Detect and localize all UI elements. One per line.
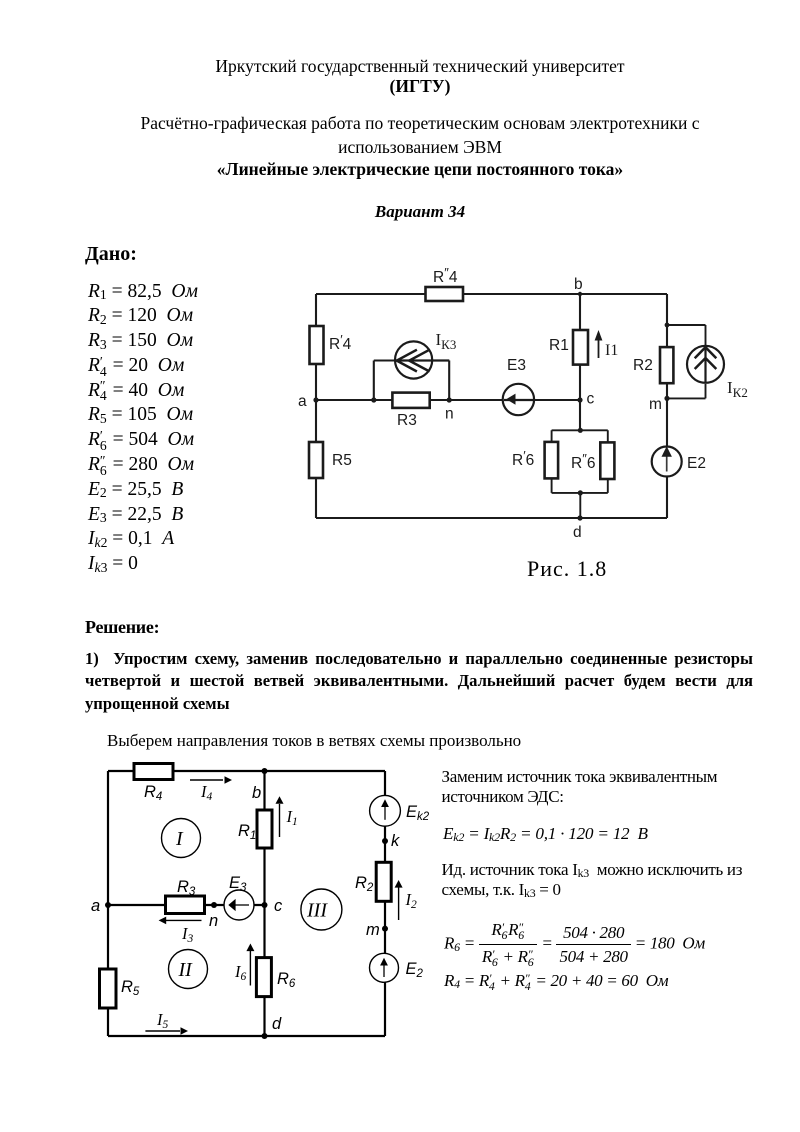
svg-text:R2: R2 xyxy=(633,357,653,374)
junction on a-n wire xyxy=(371,397,376,402)
Дано list xyxy=(88,280,198,578)
resistor R3 xyxy=(392,393,429,429)
node b xyxy=(574,276,583,296)
current source Ik3 xyxy=(395,330,456,379)
current arrow I1 xyxy=(595,330,619,359)
svg-text:d: d xyxy=(272,1015,282,1033)
svg-text:n: n xyxy=(209,912,218,930)
svg-text:E3: E3 xyxy=(507,357,526,374)
loop II xyxy=(169,950,208,989)
svg-text:I2: I2 xyxy=(405,890,418,911)
wire bottom xyxy=(316,517,667,519)
resistor R6 xyxy=(256,958,296,997)
svg-text:E3: E3 xyxy=(229,874,247,894)
svg-text:R6: R6 xyxy=(277,970,296,990)
svg-text:a: a xyxy=(91,897,100,915)
resistor R'6 xyxy=(512,442,558,479)
svg-text:II: II xyxy=(178,959,194,981)
node a xyxy=(298,393,319,410)
emf source Ek2 xyxy=(370,795,430,826)
Решение heading xyxy=(85,617,159,638)
svg-text:E2: E2 xyxy=(406,960,424,980)
svg-text:I5: I5 xyxy=(156,1010,169,1031)
node d xyxy=(573,515,583,541)
wire top xyxy=(316,293,667,295)
svg-text:III: III xyxy=(306,900,328,922)
wire Ik2 branch xyxy=(667,325,706,398)
resistor R2 xyxy=(633,347,673,383)
header line 1 xyxy=(40,56,800,77)
svg-text:R5: R5 xyxy=(121,978,140,998)
current arrow I5 xyxy=(145,1010,188,1035)
node n xyxy=(209,902,218,930)
current source Ik2 xyxy=(687,346,748,400)
svg-text:d: d xyxy=(573,524,582,541)
node n xyxy=(445,397,454,422)
svg-text:b: b xyxy=(574,276,583,293)
svg-text:I1: I1 xyxy=(286,807,298,828)
CIRCUIT 1 xyxy=(290,260,770,565)
resistor R1 xyxy=(238,810,272,848)
wire left vertical xyxy=(315,294,317,518)
node c xyxy=(577,391,594,408)
current arrow I3 xyxy=(159,917,202,945)
svg-text:c: c xyxy=(587,391,595,408)
wire a-c horizontal xyxy=(316,399,580,401)
resistor R4 xyxy=(134,764,173,804)
svg-text:R1: R1 xyxy=(549,337,569,354)
svg-text:I3: I3 xyxy=(181,924,194,945)
header line 2 xyxy=(40,76,800,97)
emf source E2 xyxy=(652,446,706,476)
Дано heading xyxy=(85,243,137,266)
emf source E3 xyxy=(224,874,254,920)
svg-text:c: c xyxy=(274,897,283,915)
wire right vertical xyxy=(666,294,668,518)
resistor R"6 xyxy=(571,442,614,479)
resistor R5 xyxy=(309,442,352,478)
resistor R"4 xyxy=(426,265,464,301)
svg-text:m: m xyxy=(366,921,380,939)
header line 3-4 xyxy=(40,111,800,159)
node c xyxy=(262,897,284,915)
node m xyxy=(366,921,388,939)
svg-text:IК2: IК2 xyxy=(727,378,748,400)
current arrow I6 xyxy=(234,944,254,986)
svg-text:R4: R4 xyxy=(144,783,162,803)
header line 5 xyxy=(40,159,800,180)
svg-text:I1: I1 xyxy=(605,342,618,359)
CIRCUIT 2 xyxy=(85,755,445,1060)
svg-text:a: a xyxy=(298,393,307,410)
wire outer rectangle xyxy=(108,771,385,1036)
wire middle vertical xyxy=(263,771,265,1036)
wire Ik3 loop xyxy=(374,361,449,401)
R6 parallel frame xyxy=(552,430,608,518)
header line 6 xyxy=(40,202,800,222)
emf source E3 xyxy=(503,357,534,415)
svg-text:R″4: R″4 xyxy=(433,265,458,286)
resistor R1 xyxy=(549,330,588,365)
caption Рис. 1.8 xyxy=(527,556,607,582)
svg-text:m: m xyxy=(649,396,662,413)
wire a-c horizontal xyxy=(108,904,265,906)
node m xyxy=(649,396,670,413)
current arrow I4 xyxy=(190,776,232,803)
svg-text:R″6: R″6 xyxy=(571,451,595,472)
svg-text:E2: E2 xyxy=(687,455,706,472)
wire c to R6 split xyxy=(579,400,581,430)
node d xyxy=(262,1015,283,1039)
svg-text:Ek2: Ek2 xyxy=(406,803,430,823)
resistor R3 xyxy=(166,878,205,914)
svg-text:R′4: R′4 xyxy=(329,332,352,353)
svg-text:I: I xyxy=(175,828,184,850)
svg-text:IК3: IК3 xyxy=(436,330,457,352)
svg-text:k: k xyxy=(391,832,400,850)
svg-text:R2: R2 xyxy=(355,874,374,894)
svg-text:b: b xyxy=(252,784,261,802)
wire middle vertical b-c xyxy=(579,294,581,400)
current arrow I2 xyxy=(395,880,417,920)
svg-text:I4: I4 xyxy=(200,782,213,803)
resistor R2 xyxy=(355,862,391,901)
svg-text:n: n xyxy=(445,406,454,423)
current arrow I1 xyxy=(276,796,298,837)
right column xyxy=(442,767,778,807)
svg-text:R′6: R′6 xyxy=(512,448,534,469)
paragraph 1 xyxy=(85,648,753,715)
resistor R5 xyxy=(100,969,140,1008)
svg-text:R3: R3 xyxy=(397,412,417,429)
svg-text:I6: I6 xyxy=(234,962,247,983)
svg-text:R1: R1 xyxy=(238,822,256,842)
svg-text:R3: R3 xyxy=(177,878,196,898)
node b xyxy=(252,768,268,802)
node a xyxy=(91,897,111,915)
loop III xyxy=(301,889,342,930)
paragraph 2 xyxy=(107,731,521,751)
svg-text:R5: R5 xyxy=(332,452,352,469)
emf source E2 xyxy=(370,953,424,982)
node k xyxy=(382,832,400,850)
resistor R'4 xyxy=(310,326,352,364)
loop I xyxy=(162,819,201,858)
